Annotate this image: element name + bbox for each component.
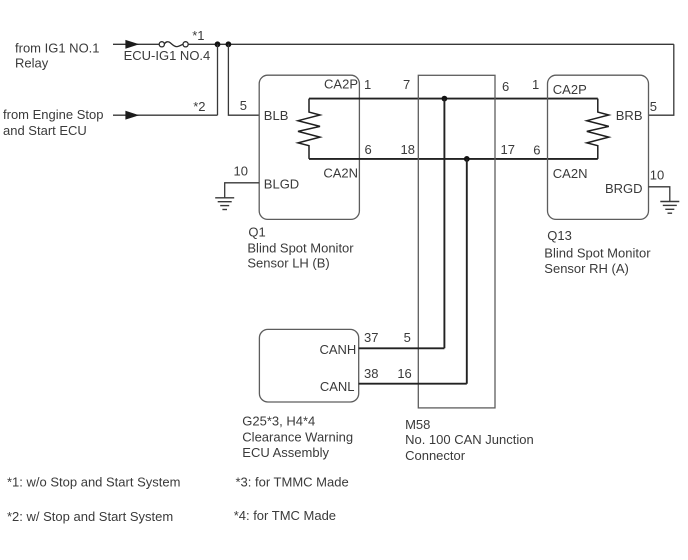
arrow: Engine Stop feed direction (126, 111, 138, 119)
caption Q1 (247, 224, 354, 270)
svg-text:BRGD: BRGD (605, 181, 643, 196)
wire: CANL net to M58 (359, 383, 467, 385)
svg-text:Q13: Q13 (547, 228, 572, 243)
svg-text:No. 100 CAN Junction: No. 100 CAN Junction (405, 432, 534, 447)
wire: CANL link inside M58 (466, 159, 468, 384)
svg-text:BLB: BLB (264, 108, 289, 123)
svg-text:10: 10 (650, 167, 664, 182)
svg-text:BLGD: BLGD (264, 176, 299, 191)
wire: fuse to junction dots and across top (188, 43, 674, 45)
wire: CA2P net from Q1 resistor to Q13 resistor (309, 98, 598, 100)
wire: top run down right side to Q13 pin 5 (BRB) (649, 44, 674, 115)
fuse ECU-IG1 NO.4 (159, 42, 188, 47)
svg-text:BRB: BRB (616, 108, 643, 123)
ground symbol (left) (215, 198, 234, 210)
svg-text:*1: *1 (192, 28, 204, 43)
svg-text:Blind Spot Monitor: Blind Spot Monitor (247, 241, 354, 256)
junction dot on CA2N net inside M58 (464, 156, 470, 162)
wire: BLGD to ground (225, 183, 260, 198)
wire: CANH net to M58 (359, 347, 445, 349)
ground symbol (right) (660, 202, 679, 214)
component Q13: Blind Spot Monitor Sensor RH (A) box (548, 75, 649, 219)
wire: vertical from dot A to Engine Stop wire (217, 44, 219, 115)
svg-text:and Start ECU: and Start ECU (3, 123, 87, 138)
svg-text:from Engine Stop: from Engine Stop (3, 107, 103, 122)
svg-text:38: 38 (364, 366, 378, 381)
svg-text:5: 5 (240, 98, 247, 113)
wire: IG1 feed into fuse (113, 43, 159, 45)
svg-text:37: 37 (364, 330, 378, 345)
svg-text:CANH: CANH (319, 342, 356, 357)
caption G25/H4 (242, 414, 353, 460)
svg-text:5: 5 (650, 99, 657, 114)
junction dot A (215, 41, 221, 47)
svg-text:Sensor LH (B): Sensor LH (B) (247, 255, 329, 270)
svg-text:G25*3, H4*4: G25*3, H4*4 (242, 414, 315, 429)
junction dot B (226, 41, 232, 47)
node: from Engine Stop and Start ECU label (3, 107, 103, 138)
wire: CANH link inside M58 (443, 99, 445, 349)
svg-text:*2: *2 (193, 99, 205, 114)
svg-text:*1: w/o Stop and Start System: *1: w/o Stop and Start System (7, 474, 180, 489)
resistor inside Q13 (587, 99, 609, 159)
svg-text:17: 17 (501, 142, 515, 157)
svg-text:Connector: Connector (405, 448, 466, 463)
wire: Engine Stop feed (113, 114, 218, 116)
node: from IG1 NO.1 Relay label (15, 41, 100, 71)
svg-text:CA2N: CA2N (323, 166, 358, 181)
svg-text:CA2P: CA2P (324, 76, 358, 91)
svg-text:Relay: Relay (15, 56, 49, 71)
svg-text:*4: for TMC Made: *4: for TMC Made (234, 508, 336, 523)
svg-text:ECU Assembly: ECU Assembly (242, 445, 329, 460)
svg-text:7: 7 (403, 77, 410, 92)
svg-text:Blind Spot Monitor: Blind Spot Monitor (544, 245, 651, 260)
svg-text:10: 10 (234, 164, 248, 179)
svg-text:6: 6 (533, 143, 540, 158)
svg-text:Sensor RH (A): Sensor RH (A) (544, 261, 629, 276)
svg-text:ECU-IG1 NO.4: ECU-IG1 NO.4 (124, 48, 211, 63)
svg-text:6: 6 (502, 79, 509, 94)
svg-text:1: 1 (364, 77, 371, 92)
svg-text:CANL: CANL (320, 379, 355, 394)
wire: CA2N net from Q1 resistor to Q13 resistor (309, 158, 598, 160)
svg-text:1: 1 (532, 77, 539, 92)
svg-text:CA2P: CA2P (553, 82, 587, 97)
junction dot on CA2P net inside M58 (442, 96, 448, 102)
svg-text:M58: M58 (405, 417, 430, 432)
svg-text:6: 6 (365, 142, 372, 157)
caption Q13 (544, 228, 651, 276)
arrow: IG1 feed direction (126, 40, 138, 48)
svg-text:CA2N: CA2N (553, 166, 588, 181)
svg-text:Q1: Q1 (248, 224, 265, 239)
caption M58 (405, 417, 534, 463)
wire: vertical from dot B down then right to Q1 pin 5 (BLB) (228, 44, 259, 115)
resistor inside Q1 (298, 99, 320, 159)
component G25/H4: Clearance Warning ECU Assembly box (259, 329, 358, 402)
svg-text:from IG1 NO.1: from IG1 NO.1 (15, 41, 100, 56)
svg-text:16: 16 (397, 366, 411, 381)
svg-text:Clearance Warning: Clearance Warning (242, 430, 353, 445)
component M58: No.100 CAN Junction Connector box (418, 75, 495, 408)
svg-text:18: 18 (401, 142, 415, 157)
component Q1: Blind Spot Monitor Sensor LH (B) box (259, 75, 359, 219)
svg-text:*2: w/ Stop and Start System: *2: w/ Stop and Start System (7, 509, 173, 524)
svg-text:5: 5 (404, 330, 411, 345)
wire: BRGD to ground (649, 187, 670, 202)
svg-text:*3: for TMMC Made: *3: for TMMC Made (236, 474, 349, 489)
